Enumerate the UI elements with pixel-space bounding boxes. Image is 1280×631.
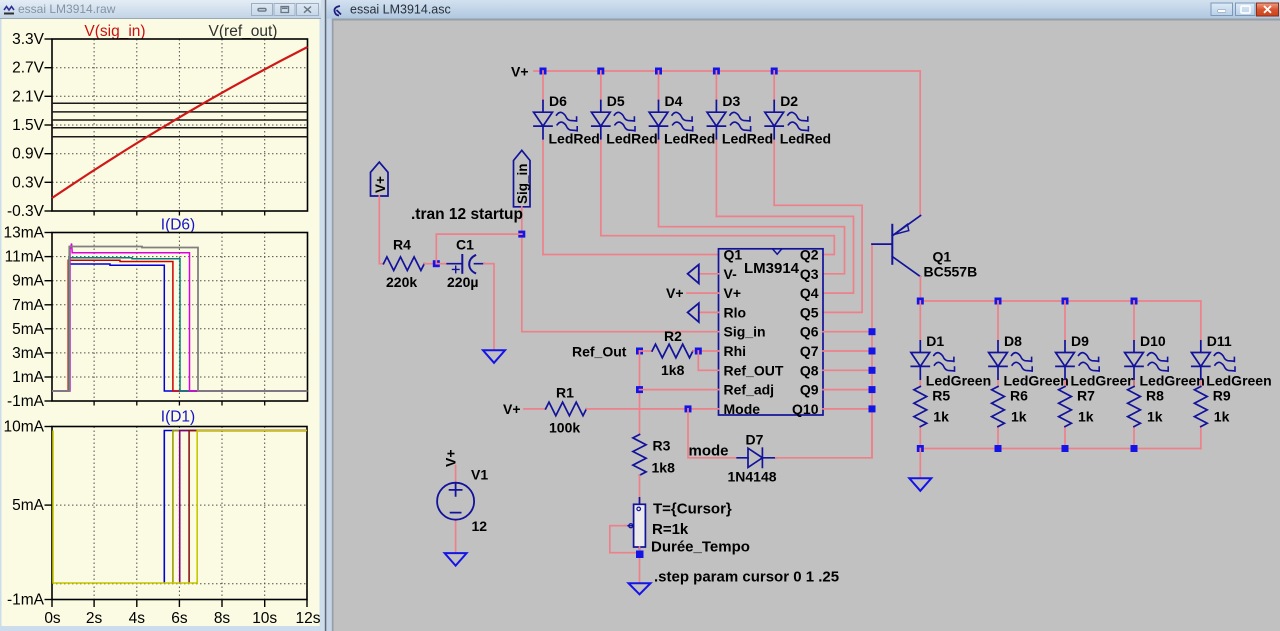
wire Rhi junction to Ref_OUT pin <box>698 351 718 370</box>
svg-text:D8: D8 <box>1004 333 1022 349</box>
svg-text:-0.3V: -0.3V <box>7 203 45 220</box>
svg-text:D6: D6 <box>549 93 567 109</box>
svg-text:Sig_in: Sig_in <box>724 324 766 340</box>
svg-text:R1: R1 <box>556 385 574 401</box>
svg-text:V+: V+ <box>373 176 388 193</box>
pane 1 V(sig_in)/V(ref_out) <box>84 23 277 40</box>
wire D6 to pin Q1 <box>543 254 719 256</box>
svg-text:D4: D4 <box>665 93 683 109</box>
junction top rail D3 <box>713 68 720 75</box>
svg-text:Ref_adj: Ref_adj <box>724 382 775 398</box>
svg-text:R7: R7 <box>1077 388 1095 404</box>
ground C1 <box>483 350 505 363</box>
resistor R1 100k <box>524 385 719 436</box>
svg-text:9mA: 9mA <box>12 273 45 290</box>
svg-text:V(ref_out): V(ref_out) <box>209 23 278 40</box>
wire green LED top rail <box>920 300 1201 302</box>
svg-text:LedGreen: LedGreen <box>1206 373 1271 389</box>
pin V- arrow flag <box>699 273 719 275</box>
left window buttons <box>252 4 319 16</box>
wire D2 to pin Q5 <box>774 205 862 312</box>
svg-text:D10: D10 <box>1140 333 1166 349</box>
led D6 <box>534 71 600 255</box>
svg-text:D7: D7 <box>746 432 764 448</box>
svg-text:Q10: Q10 <box>792 401 819 417</box>
svg-text:R6: R6 <box>1010 388 1028 404</box>
junction R4/C1 <box>433 260 440 267</box>
led D11 + resistor R9 <box>1191 301 1271 449</box>
svg-text:C1: C1 <box>456 237 474 253</box>
svg-text:V-: V- <box>724 266 738 282</box>
svg-text:Q9: Q9 <box>800 382 819 398</box>
svg-text:220k: 220k <box>386 274 417 290</box>
svg-text:I(D1): I(D1) <box>161 409 195 426</box>
op-amp-box U1 LM3914 <box>719 247 824 417</box>
svg-text:LedRed: LedRed <box>549 131 600 147</box>
junction R2 right / Rhi <box>695 348 702 355</box>
junction pot bottom <box>636 551 644 559</box>
svg-text:D2: D2 <box>780 93 798 109</box>
wire V+ flag to R4 <box>379 196 383 264</box>
wire D4 to pin Q3 <box>659 227 845 274</box>
wire D3 to pin Q4 <box>716 216 853 293</box>
svg-text:V(sig_in): V(sig_in) <box>84 23 145 40</box>
svg-text:2s: 2s <box>86 610 103 627</box>
svg-text:0.3V: 0.3V <box>12 174 45 191</box>
V(sig_in) ramp trace <box>52 47 308 198</box>
svg-text:13mA: 13mA <box>4 225 45 242</box>
svg-text:V+: V+ <box>511 64 529 80</box>
junction bottom rail D9 <box>1062 445 1069 452</box>
svg-text:5mA: 5mA <box>12 321 45 338</box>
svg-text:Mode: Mode <box>724 401 761 417</box>
svg-text:BC557B: BC557B <box>924 264 978 280</box>
junction Ref_adj <box>636 386 643 393</box>
svg-text:Q6: Q6 <box>800 324 819 340</box>
svg-text:1k: 1k <box>933 409 949 425</box>
wire Sig_in flag down to pin <box>522 207 719 332</box>
svg-text:LedRed: LedRed <box>664 131 715 147</box>
svg-text:V+: V+ <box>503 401 521 417</box>
x axis labels <box>44 610 320 627</box>
svg-text:Q5: Q5 <box>800 304 819 320</box>
junction Q7 <box>869 348 876 355</box>
svg-text:LedGreen: LedGreen <box>1140 373 1205 389</box>
svg-text:LedGreen: LedGreen <box>926 373 991 389</box>
svg-text:D3: D3 <box>722 93 740 109</box>
junction bottom rail D10 <box>1131 445 1138 452</box>
junction green rail D1 <box>917 298 924 305</box>
pin Rlo arrow flag <box>699 311 719 313</box>
potentiometer Duree_Tempo <box>610 501 750 583</box>
wire Ref_Out vertical to R3 <box>639 351 641 435</box>
svg-text:LM3914: LM3914 <box>744 260 800 277</box>
ground green rail <box>909 478 931 491</box>
junction mode/Mode pin <box>685 405 692 412</box>
svg-text:R2: R2 <box>664 328 682 344</box>
svg-text:Ref_Out: Ref_Out <box>572 344 627 360</box>
capacitor C1 220u polarized <box>436 237 494 350</box>
junction Sig_in / C1 <box>518 231 525 238</box>
svg-text:100k: 100k <box>549 420 580 436</box>
junction Ref_Out <box>636 348 643 355</box>
svg-text:-1mA: -1mA <box>7 393 45 410</box>
svg-text:LedRed: LedRed <box>780 131 831 147</box>
led D10 + resistor R8 <box>1125 301 1205 449</box>
svg-text:Sig_in: Sig_in <box>515 163 530 204</box>
resistor R2 1k8 <box>640 328 719 378</box>
svg-text:2.7V: 2.7V <box>12 60 45 77</box>
svg-text:Q1: Q1 <box>933 249 952 265</box>
svg-text:D9: D9 <box>1071 333 1089 349</box>
svg-text:0s: 0s <box>44 610 61 627</box>
junction Q8 <box>869 367 876 374</box>
wire Q6..Q10 bus column <box>823 244 872 458</box>
svg-text:V1: V1 <box>471 467 488 483</box>
junction bottom rail D8 <box>995 445 1002 452</box>
svg-text:1k: 1k <box>1214 409 1230 425</box>
node mode: wire from Mode junction down to D7 <box>688 409 737 458</box>
junction top rail D4 <box>655 68 662 75</box>
svg-text:12s: 12s <box>296 610 321 627</box>
svg-text:essai LM3914.asc: essai LM3914.asc <box>350 3 451 17</box>
svg-text:Q8: Q8 <box>800 362 819 378</box>
svg-text:Durée_Tempo: Durée_Tempo <box>651 539 750 556</box>
svg-text:Q7: Q7 <box>800 343 819 359</box>
led D1 + resistor R5 <box>911 301 991 449</box>
svg-text:V+: V+ <box>443 449 459 467</box>
svg-text:1k: 1k <box>1147 409 1163 425</box>
svg-text:1k: 1k <box>1011 409 1027 425</box>
svg-text:Q1: Q1 <box>724 247 743 263</box>
led D9 + resistor R7 <box>1056 301 1136 449</box>
svg-text:1N4148: 1N4148 <box>728 469 777 485</box>
led D3 <box>707 71 773 216</box>
svg-text:LedRed: LedRed <box>722 131 773 147</box>
svg-text:.tran 12 startup: .tran 12 startup <box>411 206 523 223</box>
svg-text:R8: R8 <box>1146 388 1164 404</box>
wire Ref_adj to pin <box>640 389 719 391</box>
svg-text:Q4: Q4 <box>800 285 819 301</box>
junction green rail D8 <box>995 298 1002 305</box>
junction Q10 <box>869 405 876 412</box>
svg-text:I(D6): I(D6) <box>161 217 195 234</box>
canvas <box>334 21 1280 631</box>
svg-text:1mA: 1mA <box>12 369 45 386</box>
svg-text:D11: D11 <box>1207 333 1232 349</box>
svg-text:12: 12 <box>472 518 488 534</box>
svg-text:LedRed: LedRed <box>606 131 657 147</box>
svg-text:10s: 10s <box>252 610 277 627</box>
svg-text:D1: D1 <box>926 333 944 349</box>
svg-text:10mA: 10mA <box>4 419 45 436</box>
svg-text:2.1V: 2.1V <box>12 88 45 105</box>
I(D6) traces <box>52 244 308 392</box>
voltage source V1 12 <box>437 449 488 552</box>
svg-text:mode: mode <box>689 443 729 460</box>
svg-text:Ref_OUT: Ref_OUT <box>724 362 784 378</box>
led D5 <box>591 71 657 236</box>
junction top rail D5 <box>597 68 604 75</box>
svg-text:1.5V: 1.5V <box>12 117 45 134</box>
svg-text:V+: V+ <box>724 285 742 301</box>
schematic window icon <box>334 6 341 16</box>
svg-text:6s: 6s <box>171 610 188 627</box>
junction green rail D9 <box>1062 298 1069 305</box>
svg-text:Q2: Q2 <box>800 247 819 263</box>
svg-text:1k8: 1k8 <box>661 362 685 378</box>
resistor R3 1k8 <box>633 435 675 552</box>
svg-text:R3: R3 <box>653 438 671 454</box>
wire bottom rail to ground <box>919 449 921 479</box>
junction Q6 <box>869 328 876 335</box>
led D8 + resistor R6 <box>989 301 1069 449</box>
svg-text:LedGreen: LedGreen <box>1071 373 1136 389</box>
svg-text:Rlo: Rlo <box>724 304 747 320</box>
wire green LED bottom rail <box>920 448 1201 450</box>
junction bottom rail D1 <box>917 445 924 452</box>
I(D1) traces <box>53 431 307 584</box>
svg-text:R4: R4 <box>393 237 411 253</box>
svg-text:0.9V: 0.9V <box>12 146 45 163</box>
flag Sig_in <box>514 150 719 331</box>
led D2 <box>765 71 831 205</box>
ground V1 <box>445 553 467 566</box>
V(ref_out) step traces <box>52 103 308 136</box>
svg-text:LedGreen: LedGreen <box>1004 373 1069 389</box>
junction Q9 <box>869 386 876 393</box>
svg-text:T={Cursor}: T={Cursor} <box>653 501 732 518</box>
svg-text:V+: V+ <box>666 285 684 301</box>
svg-text:5mA: 5mA <box>12 497 45 514</box>
svg-text:D5: D5 <box>607 93 625 109</box>
transistor Q1 BC557B <box>872 216 977 301</box>
svg-text:Rhi: Rhi <box>724 343 747 359</box>
svg-text:11mA: 11mA <box>5 249 45 266</box>
svg-text:1k: 1k <box>1078 409 1094 425</box>
wire top V+ rail to Q1 emitter <box>534 71 920 215</box>
junction top rail D2 <box>771 68 778 75</box>
junction green rail D10 <box>1131 298 1138 305</box>
diode D7 1N4148 <box>728 409 873 485</box>
flag V+ left <box>371 162 389 264</box>
window buttons <box>1211 3 1279 16</box>
ground pot <box>629 583 651 594</box>
svg-text:220µ: 220µ <box>447 274 478 290</box>
svg-text:3.3V: 3.3V <box>12 31 45 48</box>
svg-text:essai LM3914.raw: essai LM3914.raw <box>18 2 116 16</box>
junction top rail D6 <box>540 68 547 75</box>
wire junction up to Sig_in node <box>436 234 522 264</box>
svg-text:R=1k: R=1k <box>652 521 689 538</box>
led D4 <box>649 71 715 227</box>
svg-text:1k8: 1k8 <box>652 460 676 476</box>
resistor R4 220k <box>384 237 437 291</box>
svg-text:3mA: 3mA <box>12 345 45 362</box>
left window icon <box>4 7 14 11</box>
plot background <box>2 19 320 626</box>
svg-text:-1mA: -1mA <box>7 592 45 609</box>
svg-text:4s: 4s <box>129 610 146 627</box>
wire D5 to pin Q2 <box>601 236 835 255</box>
svg-text:7mA: 7mA <box>12 297 45 314</box>
svg-text:.step param cursor 0 1 .25: .step param cursor 0 1 .25 <box>654 569 839 586</box>
svg-text:Q3: Q3 <box>800 266 819 282</box>
svg-text:8s: 8s <box>214 610 231 627</box>
svg-text:R5: R5 <box>932 388 950 404</box>
svg-text:R9: R9 <box>1213 388 1231 404</box>
